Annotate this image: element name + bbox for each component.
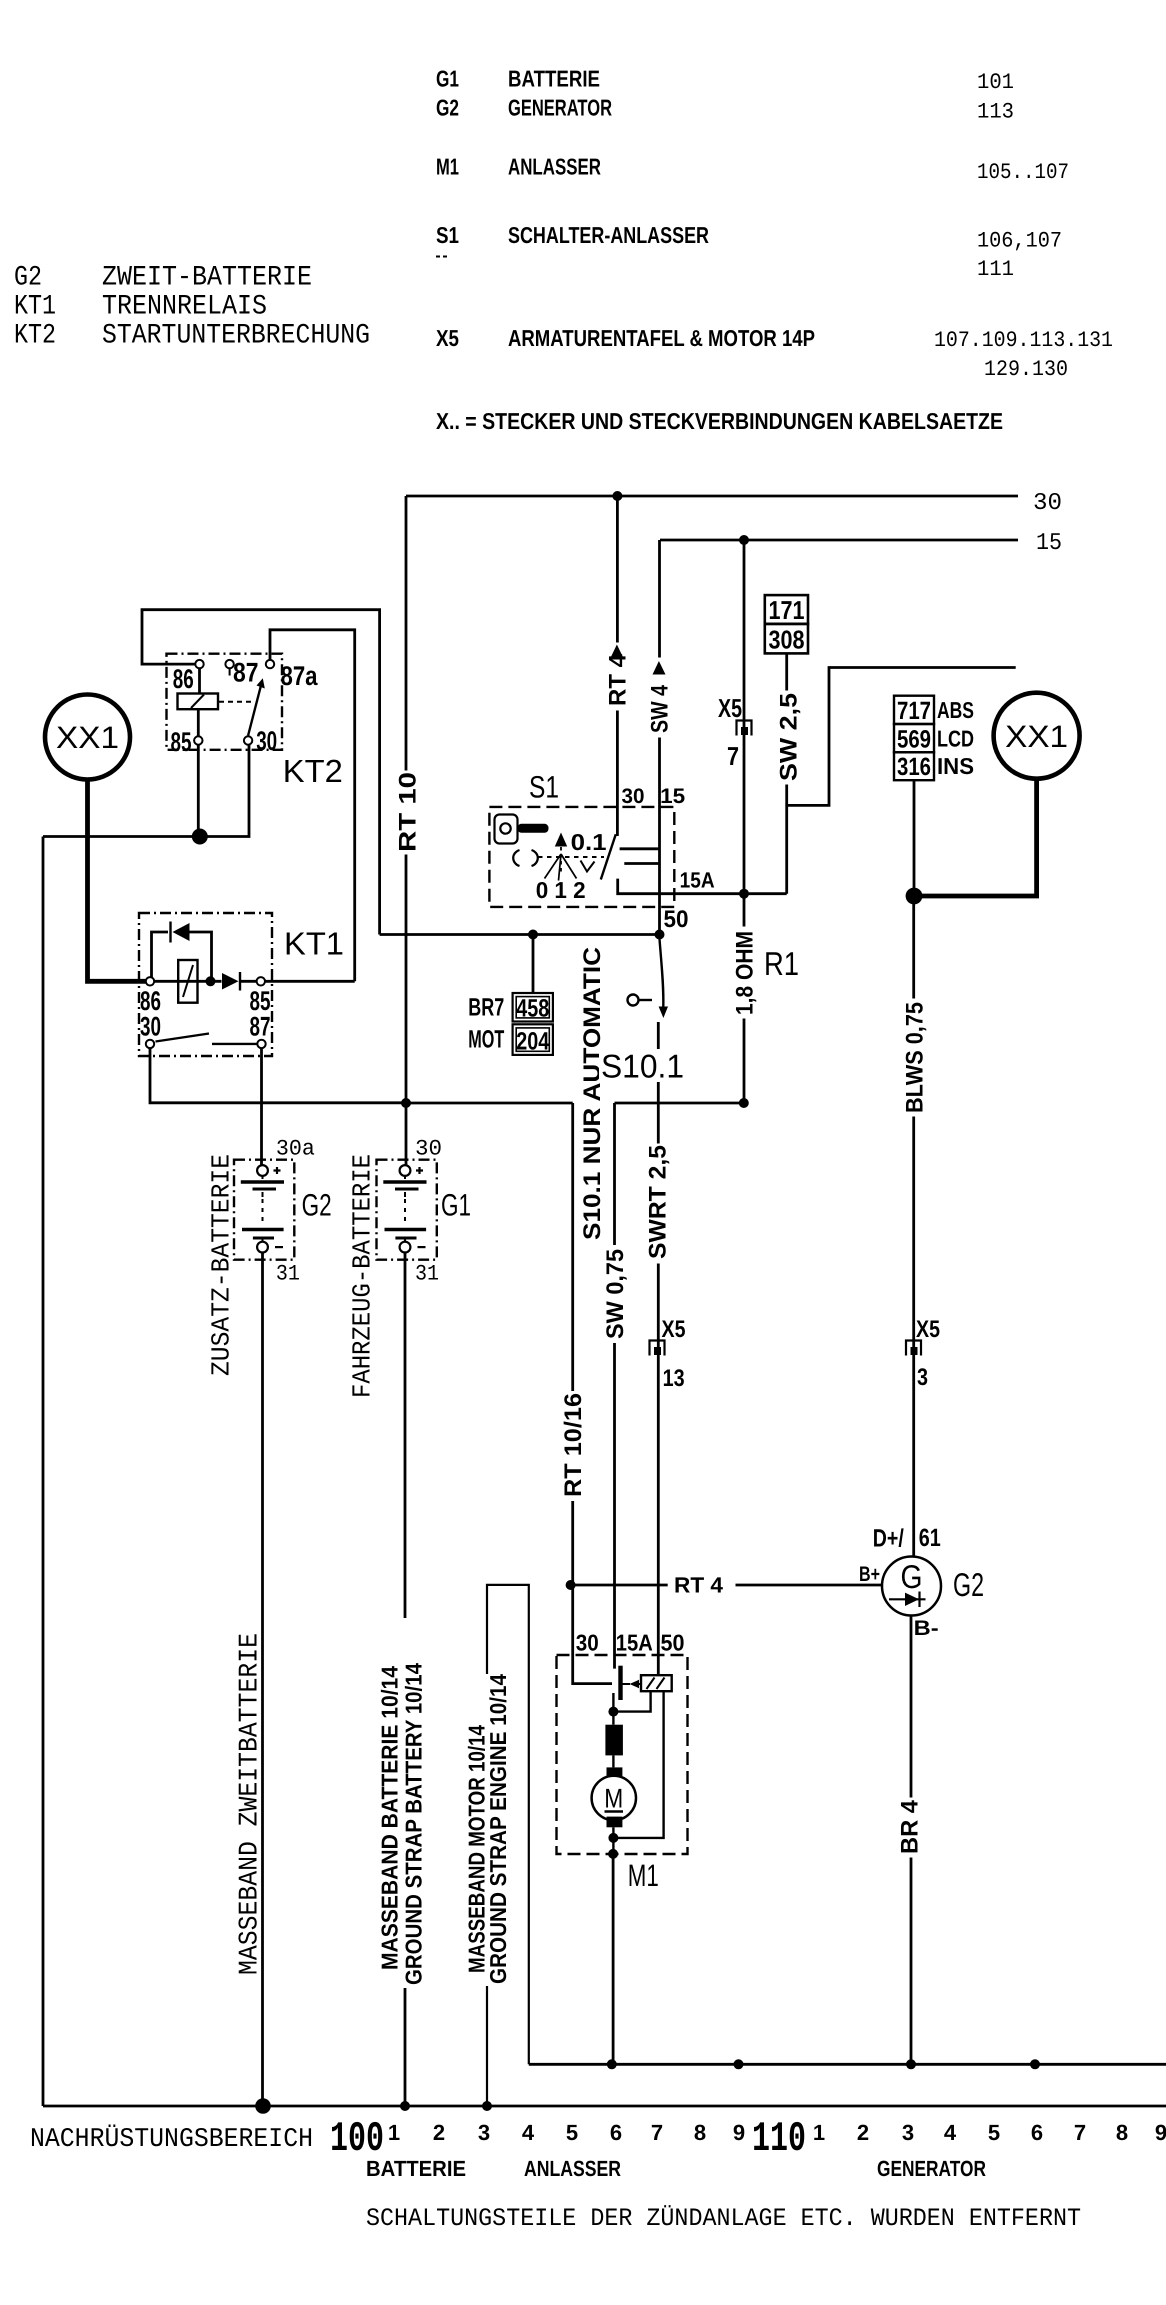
switch S1 contact blade [601, 834, 616, 879]
svg-text:KT1: KT1 [284, 926, 344, 962]
svg-text:87: 87 [250, 1012, 271, 1042]
svg-text:111: 111 [977, 257, 1014, 282]
battery G1 (Fahrzeug-Batterie) [377, 1160, 437, 1260]
relay KT2 pin 87 [225, 660, 233, 668]
svg-text:15: 15 [660, 785, 685, 808]
switch S10.1 blade and contact [628, 939, 664, 1007]
svg-text:X5: X5 [436, 325, 459, 351]
svg-text:B+: B+ [859, 1563, 880, 1586]
svg-text:MOT: MOT [468, 1026, 504, 1054]
legend row G2 GENERATOR 113 [436, 95, 1014, 125]
relay KT1 pin 87 [257, 1040, 265, 1048]
svg-text:STARTUNTERBRECHUNG: STARTUNTERBRECHUNG [102, 321, 370, 352]
wire KT2 pin85 down to junction [197, 745, 200, 837]
connector XX1 right [994, 693, 1080, 779]
label MASSEBAND BATTERIE 10/14 rotated [377, 1666, 403, 1970]
svg-text:G2: G2 [14, 263, 42, 294]
svg-text:MASSEBAND BATTERIE 10/14: MASSEBAND BATTERIE 10/14 [377, 1666, 403, 1970]
svg-text:9: 9 [1155, 2120, 1166, 2145]
relay KT2 [167, 654, 283, 750]
svg-text:LCD: LCD [937, 725, 974, 751]
svg-text:M1: M1 [436, 154, 459, 180]
wire XX1 right down to node [914, 778, 1037, 896]
wire SW 2.5 / X5-7 vertical (bus 15 junction down to 15A node) [743, 540, 746, 894]
node junction 50 / S10.1 [655, 930, 665, 940]
svg-text:G1: G1 [436, 66, 459, 92]
svg-text:3: 3 [917, 1364, 928, 1391]
node engine line / M1 [607, 2059, 617, 2069]
node junction RT10 / M1-30 branch [401, 1098, 411, 1108]
svg-text:ZUSATZ-BATTERIE: ZUSATZ-BATTERIE [207, 1154, 237, 1376]
legend row M1 ANLASSER 105..107 [436, 154, 1069, 186]
svg-text:SW 0,75: SW 0,75 [602, 1249, 629, 1339]
label RT 4 rotated with arrow [605, 643, 632, 711]
node junction KT1 coil/diodes [206, 976, 216, 986]
node junction bus30/RT4 [612, 491, 622, 501]
motor M1 brush bottom [607, 1817, 623, 1828]
wire RT 10 (bus 30 down to node, battery G1) [405, 496, 408, 1165]
svg-text:RT 4: RT 4 [674, 1573, 724, 1598]
connector box 171/308 [765, 595, 808, 653]
wire battery G1 masseband batterie (gap for labels) [404, 1253, 407, 2106]
resistor M1 series element [605, 1725, 623, 1756]
node junction R1 bottom [739, 1098, 749, 1108]
label SWRT 2,5 rotated [645, 1144, 672, 1264]
wire motor bottom to junction [612, 1827, 614, 1854]
relay KT1 diode D2 (series) [222, 973, 239, 990]
relay KT1 pin 85 [257, 977, 265, 985]
svg-text:BR7: BR7 [468, 993, 504, 1021]
svg-text:30a: 30a [276, 1136, 315, 1161]
label GROUND STRAP BATTERY 10/14 rotated [401, 1663, 427, 1985]
svg-text:S10.1: S10.1 [601, 1048, 684, 1085]
svg-text:85: 85 [171, 727, 192, 757]
svg-text:GROUND STRAP BATTERY 10/14: GROUND STRAP BATTERY 10/14 [401, 1663, 427, 1985]
designator S10.1 [599, 1048, 687, 1085]
svg-text:30: 30 [415, 1136, 442, 1161]
label RT 10 rotated [395, 771, 422, 855]
svg-text:1: 1 [388, 2120, 400, 2145]
svg-text:SCHALTUNGSTEILE DER ZÜNDANLAGE: SCHALTUNGSTEILE DER ZÜNDANLAGE ETC. WURD… [366, 2204, 1081, 2233]
node chassis bus / batterie strap [400, 2101, 410, 2111]
scale digits 110 block [813, 2120, 1166, 2145]
svg-text:G2: G2 [953, 1566, 984, 1603]
svg-text:KT2: KT2 [14, 321, 56, 352]
wire KT2 pin87a to KT1 pin85 [270, 630, 355, 982]
connector XX1 left [45, 695, 130, 780]
svg-text:106,107: 106,107 [977, 229, 1062, 254]
svg-text:7: 7 [1074, 2120, 1086, 2145]
svg-text:SW 2,5: SW 2,5 [776, 693, 803, 781]
svg-text:6: 6 [1031, 2120, 1043, 2145]
svg-text:110: 110 [752, 2115, 806, 2163]
svg-text:BR 4: BR 4 [897, 1799, 924, 1854]
svg-text:8: 8 [694, 2120, 706, 2145]
connector box BR7 458 [513, 993, 553, 1022]
svg-text:5: 5 [566, 2120, 578, 2145]
svg-text:2: 2 [433, 2120, 445, 2145]
svg-text:X5: X5 [718, 693, 742, 723]
svg-text:61: 61 [919, 1524, 941, 1552]
label RT 10/16 rotated [560, 1391, 587, 1501]
label 1,8 OHM rotated [732, 927, 759, 1019]
svg-text:7: 7 [727, 741, 739, 771]
label ZUSATZ-BATTERIE rotated [207, 1154, 237, 1376]
svg-text:XX1: XX1 [1005, 719, 1068, 754]
switch S1 mechanical linkage [513, 847, 604, 881]
node junction XX1 right / BLWS [906, 888, 923, 905]
motor M1 armature [592, 1776, 636, 1820]
wire SW 0.75 down to M1 pin 15A [613, 1103, 616, 1669]
svg-text:KT1: KT1 [14, 292, 56, 323]
svg-text:BLWS 0,75: BLWS 0,75 [902, 1002, 929, 1113]
svg-text:RT 10: RT 10 [395, 772, 422, 852]
wire chassis ground bus [43, 2105, 1166, 2108]
svg-text:31: 31 [276, 1262, 300, 1287]
svg-text:1: 1 [813, 2120, 825, 2145]
svg-text:50: 50 [664, 906, 689, 933]
wire KT1 pin87 down to battery G2 [260, 1048, 263, 1165]
wire generator D+ up to node [912, 896, 915, 1557]
svg-text:G2: G2 [436, 95, 459, 121]
wire KT1 diode2 to pin85 [240, 980, 257, 983]
generator G2 symbol [882, 1557, 941, 1616]
wire 15A riser to top horizontal [787, 668, 1016, 806]
node junction bus15/SW2.5 [739, 535, 749, 545]
node M1 box edge junction [608, 1849, 618, 1859]
svg-text:101: 101 [977, 70, 1014, 95]
svg-text:31: 31 [415, 1262, 439, 1287]
svg-text:RT 10/16: RT 10/16 [560, 1393, 587, 1497]
label BLWS 0,75 rotated [902, 999, 929, 1117]
svg-text:ANLASSER: ANLASSER [524, 2156, 621, 2181]
svg-text:MASSEBAND ZWEITBATTERIE: MASSEBAND ZWEITBATTERIE [235, 1633, 265, 1975]
svg-text:30: 30 [256, 726, 277, 756]
svg-text:M1: M1 [628, 1858, 659, 1893]
starter M1 solenoid contact bar [618, 1666, 622, 1700]
node chassis bus / zweitbatterie [255, 2098, 271, 2114]
svg-text:2: 2 [857, 2120, 869, 2145]
svg-text:X.. = STECKER UND STECKVERBIND: X.. = STECKER UND STECKVERBINDUNGEN KABE… [436, 408, 1003, 434]
svg-text:G: G [901, 1558, 923, 1595]
svg-text:S1: S1 [529, 770, 559, 805]
switch S1 wiper triangle [555, 833, 567, 847]
battery G1 terminal 30 [400, 1165, 411, 1176]
wire KT1 diode1 to junction [190, 932, 212, 978]
svg-text:50: 50 [661, 1629, 685, 1655]
svg-text:15A: 15A [616, 1629, 653, 1655]
svg-text:0 1 2: 0 1 2 [536, 877, 586, 903]
wire S1 15A output to riser [618, 879, 787, 894]
svg-text:ABS: ABS [937, 697, 974, 723]
relay KT2 pin 85 [194, 736, 202, 744]
switch S1 box [489, 807, 674, 907]
relay KT2 blade arrowhead [257, 678, 265, 688]
svg-text:S1: S1 [436, 222, 459, 248]
svg-text:KT2: KT2 [283, 753, 343, 789]
label SW 4 rotated with arrow [647, 658, 674, 738]
wire resistor to motor brush [612, 1755, 614, 1767]
connector box MOT 204 [513, 1024, 553, 1055]
node engine line tap 9 [734, 2059, 744, 2069]
svg-text:BATTERIE: BATTERIE [508, 66, 600, 92]
svg-text:4: 4 [944, 2120, 957, 2145]
wire KT1 pin30 down to node [150, 1048, 406, 1103]
wire KT2 pin86 feed (from node 50 wire) [142, 610, 380, 935]
switch S10.1 blade arrowhead [659, 1007, 668, 1019]
wire node 50 horizontal [380, 933, 660, 936]
relay KT1 diode D1 (freewheel) [173, 923, 190, 941]
starter M1 box [557, 1655, 688, 1854]
wire 717/569/316 box drop [913, 780, 916, 896]
svg-text:458: 458 [516, 995, 549, 1023]
label FAHRZEUG-BATTERIE rotated [348, 1154, 378, 1398]
relay KT2 pin 87a [266, 660, 274, 668]
wire RT 4 horizontal to generator B+ [571, 1584, 882, 1587]
wire node horizontal to M1 pin 30 branch [406, 1102, 573, 1105]
node engine line / generator [906, 2059, 916, 2069]
svg-text:7: 7 [651, 2120, 663, 2145]
wire KT1 pin85 out to KT2 87a riser [265, 980, 355, 983]
node junction RT4 / RT10-16 [566, 1580, 576, 1590]
svg-text:S10.1 NUR AUTOMATIC: S10.1 NUR AUTOMATIC [579, 947, 606, 1240]
label MASSEBAND MOTOR 10/14 rotated [464, 1725, 490, 1973]
wire battery G2 masseband zweitbatterie [261, 1253, 264, 2106]
scale digits 100 block [388, 2120, 745, 2145]
svg-text:G1: G1 [441, 1188, 471, 1223]
wire bus 15 [660, 539, 1018, 542]
relay KT1 [139, 913, 272, 1056]
label SW 0,75 rotated [602, 1245, 629, 1343]
wire M1 contact output [612, 1693, 614, 1725]
svg-text:ANLASSER: ANLASSER [508, 154, 601, 180]
relay KT2 pin 30 [244, 736, 252, 744]
wire engine ground line [529, 2063, 1166, 2066]
node M1 junction [608, 1707, 618, 1717]
wire bus 30 [406, 495, 1018, 498]
svg-text:1,8 OHM: 1,8 OHM [732, 931, 759, 1015]
wire junction to KT2 pin30 [43, 745, 249, 837]
svg-text:105..107: 105..107 [977, 160, 1069, 185]
svg-text:308: 308 [769, 625, 805, 655]
label BR 4 rotated [897, 1798, 924, 1858]
svg-text:5: 5 [988, 2120, 1000, 2145]
svg-text:204: 204 [516, 1028, 549, 1056]
svg-text:3: 3 [478, 2120, 490, 2145]
svg-text:3: 3 [902, 2120, 914, 2145]
wire S1 output contact stub 15A [624, 862, 659, 865]
svg-text:SW 4: SW 4 [647, 684, 674, 733]
battery G2 (Zusatz-Batterie) [234, 1160, 294, 1260]
svg-text:13: 13 [663, 1365, 685, 1392]
svg-text:8: 8 [1116, 2120, 1128, 2145]
svg-text:X5: X5 [662, 1316, 686, 1343]
svg-text:GENERATOR: GENERATOR [508, 95, 612, 121]
wire RT 10/16 down to M1 pin 30 [573, 1103, 612, 1684]
wire masseband motor ground strap loop [487, 1585, 529, 2106]
wire R1 to SW 0.75 branch [615, 1102, 744, 1105]
starter M1 solenoid coil [641, 1675, 672, 1691]
wire M1 motor output down [612, 1854, 615, 2064]
svg-text:171: 171 [769, 595, 805, 625]
connector X5 pin 7 symbol [737, 721, 752, 736]
legend row G1 BATTERIE 101 [436, 66, 1014, 96]
svg-text:113: 113 [977, 100, 1014, 125]
svg-text:NACHRÜSTUNGSBEREICH: NACHRÜSTUNGSBEREICH [30, 2124, 313, 2155]
battery G2 terminal 31 [257, 1242, 268, 1253]
svg-text:GENERATOR: GENERATOR [877, 2156, 986, 2181]
svg-text:ARMATURENTAFEL & MOTOR 14P: ARMATURENTAFEL & MOTOR 14P [508, 325, 815, 351]
svg-text:G2: G2 [302, 1188, 332, 1223]
svg-text:TRENNRELAIS: TRENNRELAIS [102, 292, 267, 323]
svg-text:15A: 15A [680, 868, 715, 893]
legend row X5 ARMATURENTAFEL [436, 325, 1113, 382]
relay KT1 pin 30 [146, 1040, 154, 1048]
svg-text:D+/: D+/ [873, 1525, 904, 1553]
wire SW 4 vertical (bus 15 to S1 pin 15) [658, 540, 661, 935]
wire KT2 coil pin86 to coil [198, 668, 201, 693]
svg-text:9: 9 [733, 2120, 745, 2145]
svg-text:X5: X5 [916, 1316, 940, 1343]
svg-text:87: 87 [233, 658, 259, 688]
relay KT1 pin 86 [146, 977, 154, 985]
svg-text:15: 15 [1036, 530, 1062, 557]
node junction KT2 85/30 [192, 829, 208, 845]
svg-text:107.109.113.131: 107.109.113.131 [934, 328, 1113, 353]
node junction 15A / R1 top [739, 889, 749, 899]
svg-text:SWRT 2,5: SWRT 2,5 [645, 1145, 672, 1259]
label MASSEBAND ZWEITBATTERIE rotated [235, 1633, 265, 1975]
svg-text:717: 717 [897, 697, 931, 725]
svg-text:6: 6 [610, 2120, 622, 2145]
relay KT2 pin 86 [195, 660, 203, 668]
svg-text:GROUND STRAP ENGINE 10/14: GROUND STRAP ENGINE 10/14 [485, 1674, 511, 1984]
svg-text:R1: R1 [764, 945, 799, 982]
legend left block G2 KT1 KT2 [14, 263, 370, 352]
svg-text:129.130: 129.130 [984, 357, 1068, 382]
wire R1 branch vertical [743, 894, 746, 1103]
connector X5 pin 3 symbol [906, 1341, 921, 1356]
battery G2 terminal 30a [257, 1165, 268, 1176]
svg-text:ZWEIT-BATTERIE: ZWEIT-BATTERIE [102, 263, 312, 294]
svg-text:316: 316 [897, 753, 931, 781]
wire KT1 internal top diode loop [152, 932, 169, 978]
connector box 717/569/316 [894, 696, 934, 781]
node junction 50 wire / BR7 [528, 930, 538, 940]
wire 171/308 drop SW 2.5 [785, 653, 788, 893]
svg-text:4: 4 [522, 2120, 535, 2145]
svg-text:BATTERIE: BATTERIE [366, 2156, 466, 2181]
wire KT1 main line pin86 to diode2 [154, 980, 222, 983]
svg-text:0.1: 0.1 [571, 829, 607, 855]
wire motor bottom loop to coil [613, 1691, 663, 1838]
node M1 motor bottom junction [608, 1833, 618, 1843]
node engine line tap 6 [1030, 2059, 1040, 2069]
label GROUND STRAP ENGINE 10/14 rotated [485, 1674, 511, 1984]
svg-text:30: 30 [622, 785, 645, 808]
wire S10.1 output down to M1 pin 50 [657, 1022, 660, 1675]
svg-text:SCHALTER-ANLASSER: SCHALTER-ANLASSER [508, 222, 709, 248]
svg-text:30: 30 [576, 1629, 599, 1655]
switch S1 key symbol [495, 815, 549, 844]
svg-text:87a: 87a [281, 661, 319, 691]
wire left ground riser [42, 837, 45, 2107]
svg-text:86: 86 [173, 664, 194, 694]
wire M1 coil bottom loop [618, 1691, 651, 1711]
svg-text:30: 30 [1033, 490, 1062, 517]
starter M1 contact link arrow [623, 1680, 642, 1688]
label NUR AUTOMATIC rotated [579, 946, 606, 1243]
node chassis bus / motor strap [482, 2101, 492, 2111]
svg-text:B-: B- [914, 1617, 939, 1640]
svg-text:569: 569 [897, 725, 931, 753]
wire BR7 drop [532, 935, 535, 994]
svg-text:FAHRZEUG-BATTERIE: FAHRZEUG-BATTERIE [348, 1154, 378, 1398]
svg-text:XX1: XX1 [56, 720, 119, 755]
wire generator B- down to engine line [910, 1616, 913, 2065]
svg-text:30: 30 [140, 1012, 161, 1042]
label SW 2,5 rotated [776, 691, 803, 785]
battery G1 terminal 31 [400, 1242, 411, 1253]
svg-text:RT 4: RT 4 [605, 653, 632, 706]
connector X5 pin 13 symbol [650, 1341, 665, 1356]
legend row S1 SCHALTER-ANLASSER 106,107 111 [436, 222, 1062, 282]
svg-text:INS: INS [937, 753, 974, 779]
svg-text:M: M [604, 1784, 623, 1814]
wire KT2 coil to pin85 [197, 709, 200, 736]
wire S1 output contact stub 15 [620, 847, 660, 850]
wire XX1 left to KT1 pin86 [88, 779, 146, 981]
motor M1 brush top [607, 1767, 623, 1776]
wire RT 4 vertical (bus 30 to S1 pin 30) [616, 496, 619, 836]
